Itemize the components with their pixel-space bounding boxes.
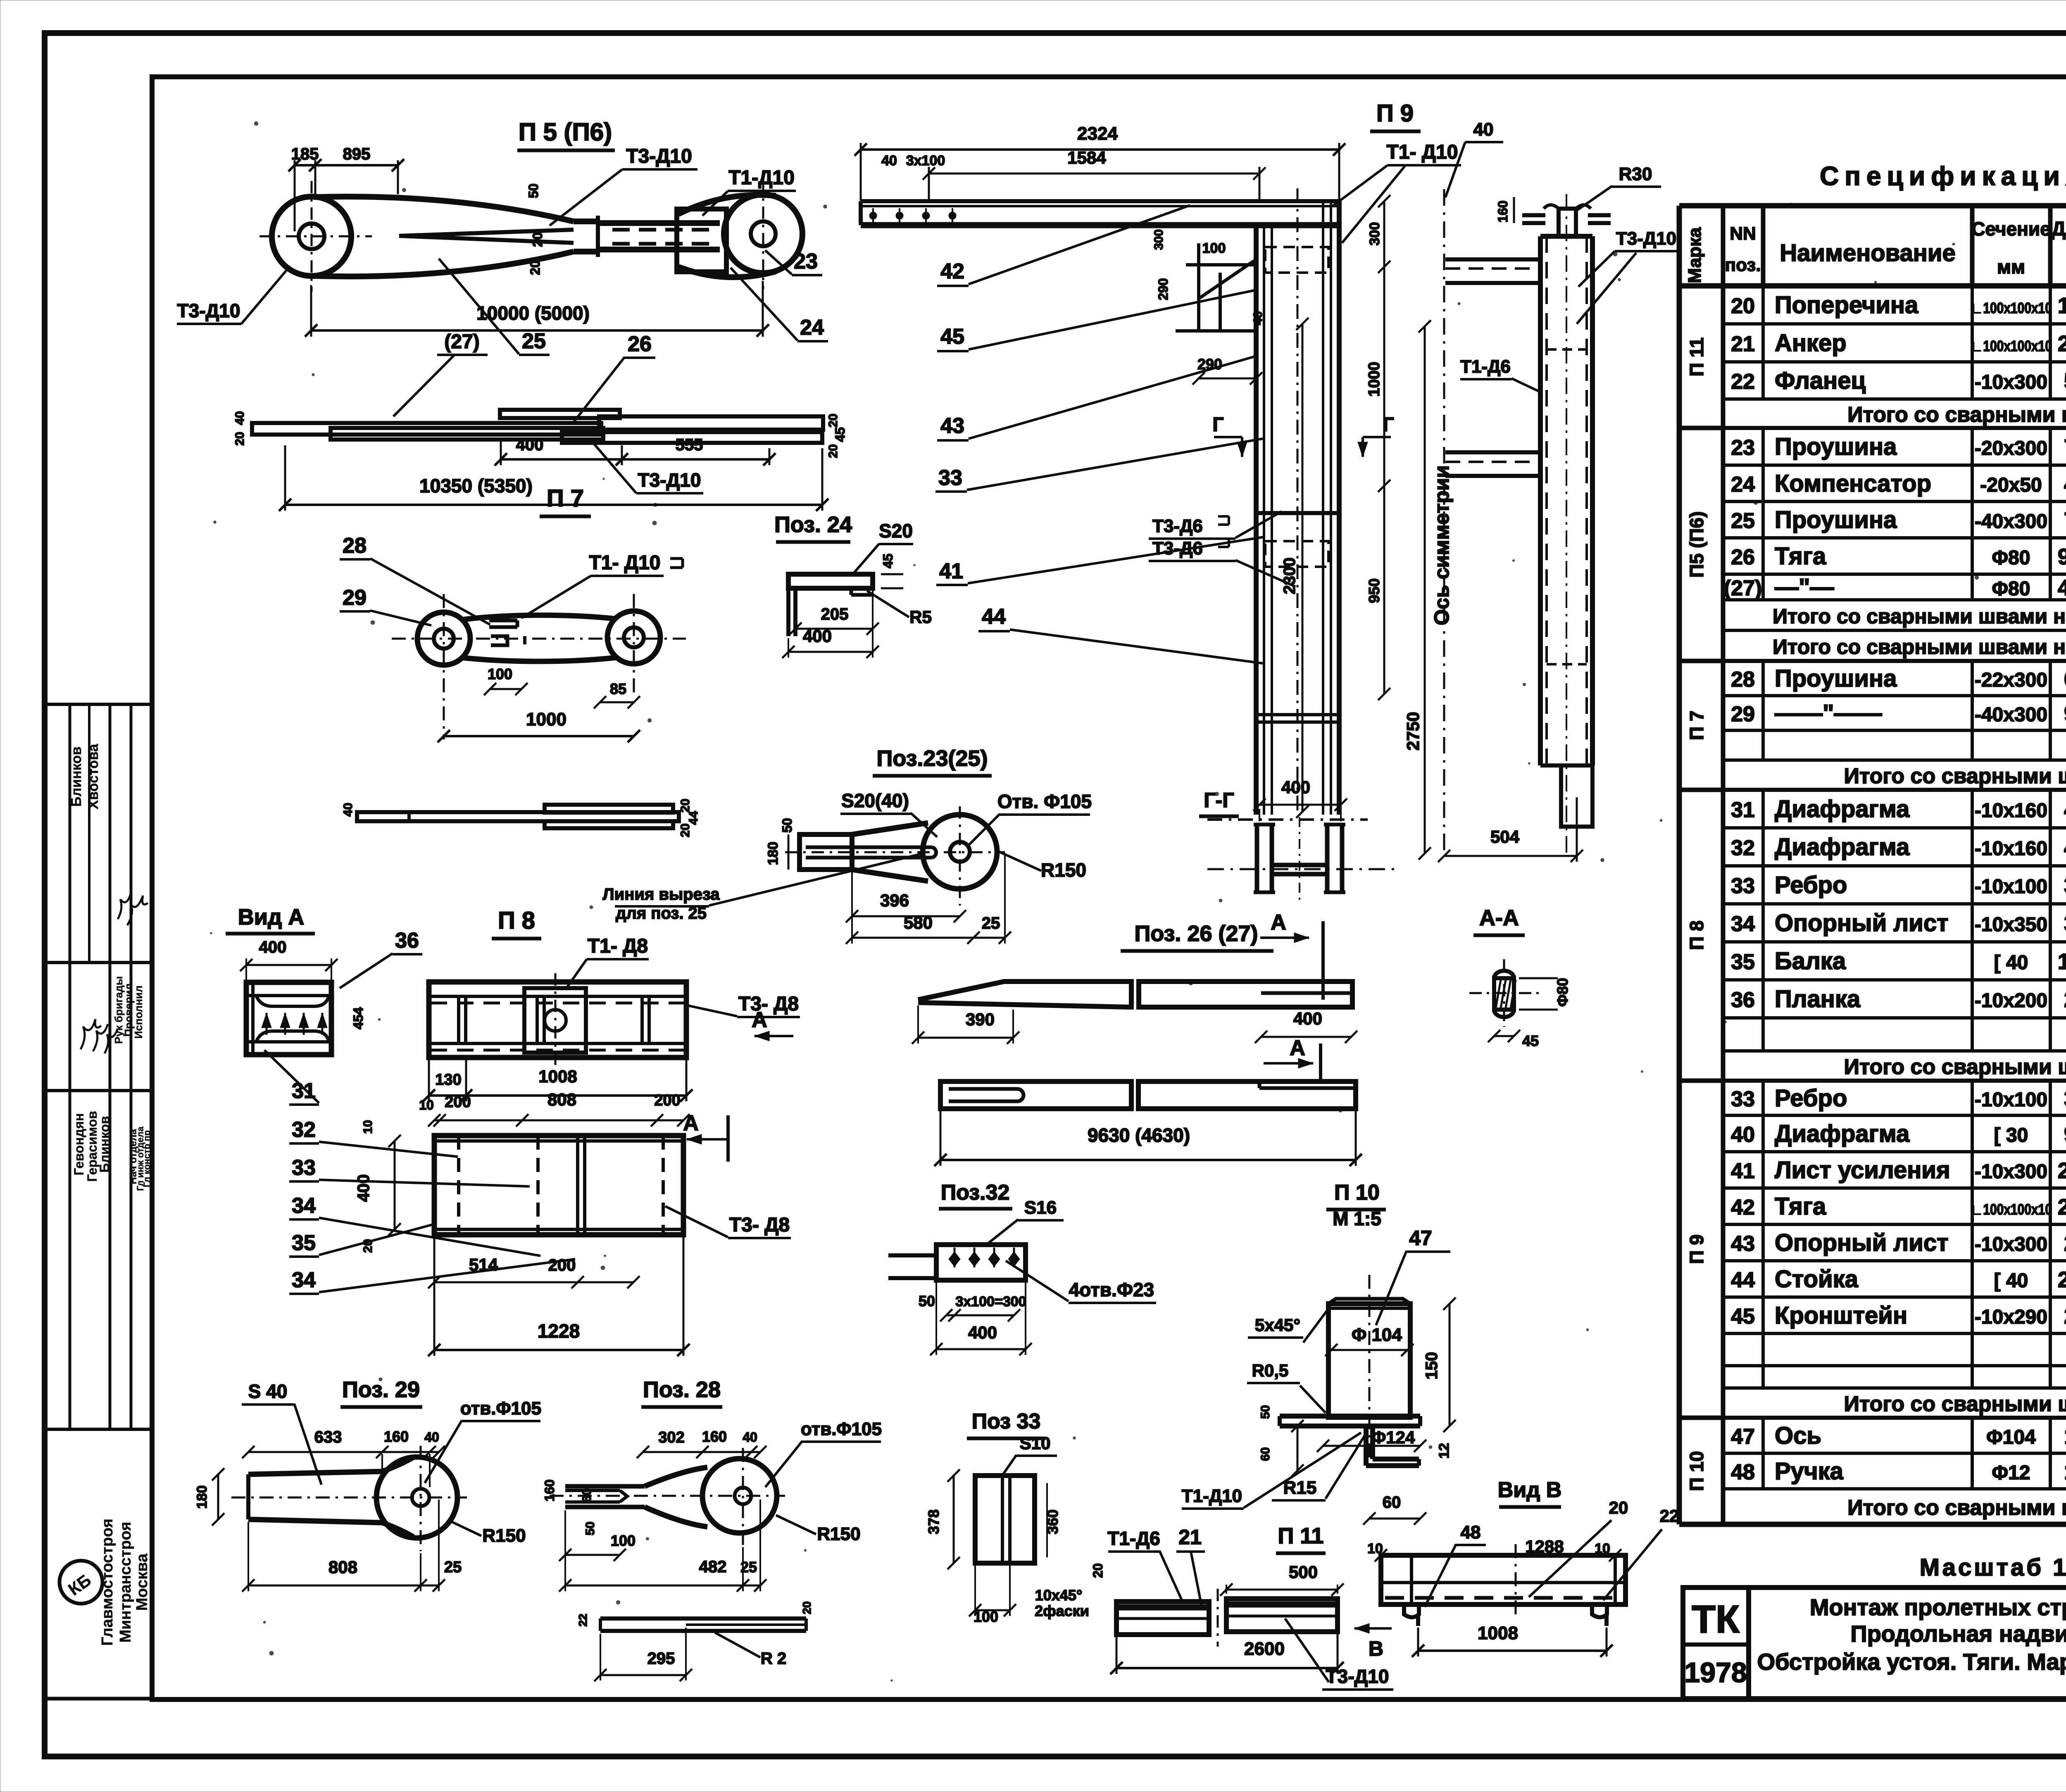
svg-text:400: 400: [1293, 1009, 1322, 1028]
svg-text:396: 396: [880, 891, 909, 910]
svg-text:60: 60: [1383, 1493, 1401, 1512]
svg-text:Обстройка устоя. Тяги. Марки: Обстройка устоя. Тяги. Марки П5÷П11: [1757, 1649, 2066, 1675]
svg-text:950: 950: [1366, 578, 1383, 603]
svg-text:-40х300: -40х300: [1975, 511, 2047, 532]
svg-text:Итого со сварными швами:: Итого со сварными швами:: [1844, 1055, 2066, 1079]
svg-text:45: 45: [1731, 1305, 1755, 1329]
svg-text:44: 44: [982, 605, 1006, 629]
svg-text:22: 22: [576, 1614, 589, 1626]
svg-text:44: 44: [687, 811, 700, 825]
svg-text:Т3- Д8: Т3- Д8: [729, 1214, 790, 1236]
svg-text:Г-Г: Г-Г: [1204, 789, 1234, 812]
svg-text:-22х300: -22х300: [1975, 669, 2047, 691]
svg-text:45: 45: [833, 427, 847, 442]
svg-text:S20(40): S20(40): [841, 790, 909, 811]
svg-text:50: 50: [780, 818, 795, 833]
svg-text:60: 60: [580, 1488, 594, 1502]
svg-text:Ось: Ось: [1775, 1422, 1821, 1449]
svg-text:Опорный лист: Опорный лист: [1775, 910, 1949, 936]
svg-text:185: 185: [291, 145, 319, 163]
svg-text:Продольная надвижка.: Продольная надвижка.: [1850, 1621, 2066, 1647]
svg-text:100: 100: [1202, 240, 1226, 256]
svg-text:20: 20: [233, 432, 247, 445]
svg-text:120: 120: [2064, 1459, 2066, 1484]
svg-text:34: 34: [292, 1194, 316, 1218]
svg-text:А: А: [752, 1008, 767, 1032]
svg-text:П 9: П 9: [1686, 1234, 1707, 1264]
svg-text:П5 (П6): П5 (П6): [1686, 511, 1707, 578]
svg-text:31: 31: [292, 1079, 316, 1103]
svg-text:755: 755: [2064, 508, 2066, 533]
svg-text:20: 20: [826, 444, 840, 458]
svg-text:-10х100: -10х100: [1975, 1089, 2047, 1111]
svg-text:Т3-Д10: Т3-Д10: [626, 145, 692, 167]
svg-text:Т3-Д10: Т3-Д10: [638, 469, 701, 491]
svg-text:992: 992: [2064, 1122, 2066, 1147]
svg-text:(27): (27): [1724, 576, 1762, 600]
svg-text:26: 26: [628, 332, 652, 356]
svg-text:мм: мм: [1997, 256, 2025, 278]
svg-text:29: 29: [343, 586, 367, 610]
svg-text:А: А: [1290, 1036, 1305, 1060]
svg-text:Вид В: Вид В: [1498, 1478, 1562, 1502]
svg-text:20: 20: [678, 799, 692, 812]
svg-text:Ребро: Ребро: [1775, 1085, 1847, 1112]
svg-text:-10х350: -10х350: [1975, 914, 2047, 936]
svg-text:R5: R5: [909, 607, 932, 627]
svg-text:40: 40: [424, 1430, 439, 1445]
svg-text:32: 32: [292, 1118, 316, 1142]
svg-text:Лист усиления: Лист усиления: [1775, 1157, 1950, 1184]
svg-text:555: 555: [676, 436, 703, 454]
svg-text:808: 808: [328, 1557, 357, 1577]
svg-text:Φ124: Φ124: [1372, 1428, 1415, 1447]
svg-text:Итого со сварными швами:: Итого со сварными швами:: [1844, 1392, 2066, 1416]
svg-text:R150: R150: [817, 1524, 860, 1544]
svg-text:Т1-Д6: Т1-Д6: [1107, 1528, 1160, 1549]
svg-text:3х100=300: 3х100=300: [955, 1294, 1026, 1310]
svg-text:9630 (4630): 9630 (4630): [1088, 1124, 1190, 1146]
svg-text:10: 10: [1595, 1541, 1610, 1557]
svg-text:1008: 1008: [538, 1067, 577, 1086]
svg-text:20: 20: [826, 414, 840, 427]
svg-text:поз.: поз.: [1725, 255, 1761, 275]
svg-text:Т1-Д6: Т1-Д6: [1460, 356, 1511, 377]
svg-text:23: 23: [1731, 436, 1755, 460]
svg-text:2750: 2750: [2058, 1267, 2066, 1292]
svg-text:Φ12: Φ12: [1992, 1462, 2030, 1484]
svg-text:48: 48: [1461, 1522, 1481, 1542]
svg-text:-10х300: -10х300: [1975, 1233, 2047, 1255]
svg-text:33: 33: [292, 1156, 316, 1180]
svg-text:Москва: Москва: [133, 1553, 151, 1611]
svg-text:-10х200: -10х200: [1975, 990, 2047, 1012]
svg-text:-10х300: -10х300: [1975, 1161, 2047, 1183]
svg-text:П 7: П 7: [547, 485, 584, 512]
svg-text:Линия выреза: Линия выреза: [603, 885, 720, 903]
svg-text:2324: 2324: [2058, 1195, 2066, 1219]
svg-text:20: 20: [528, 260, 543, 275]
svg-text:Тяга: Тяга: [1775, 543, 1826, 570]
svg-text:Минтрансстроя: Минтрансстроя: [117, 1522, 134, 1643]
svg-text:21: 21: [1731, 332, 1755, 356]
svg-text:Поз.23(25): Поз.23(25): [876, 746, 988, 771]
svg-text:22: 22: [1731, 370, 1755, 394]
svg-text:∟100х100х10: ∟100х100х10: [1971, 299, 2052, 316]
svg-text:808: 808: [547, 1090, 576, 1109]
svg-text:47: 47: [1409, 1226, 1432, 1250]
svg-text:Диафрагма: Диафрагма: [1775, 796, 1910, 822]
svg-text:400: 400: [2064, 472, 2066, 497]
svg-text:1584: 1584: [1067, 148, 1106, 167]
svg-text:28: 28: [343, 534, 367, 558]
svg-text:S 40: S 40: [248, 1381, 288, 1402]
svg-text:130: 130: [435, 1071, 461, 1089]
svg-text:Хвостова: Хвостова: [86, 744, 101, 810]
svg-text:33: 33: [938, 466, 962, 490]
svg-text:160: 160: [1495, 200, 1510, 222]
svg-text:Стойка: Стойка: [1775, 1266, 1859, 1293]
svg-text:9630: 9630: [2058, 544, 2066, 569]
svg-text:для поз. 25: для поз. 25: [616, 904, 707, 922]
svg-text:――ʺ――: ――ʺ――: [1775, 700, 1882, 727]
svg-text:П 10: П 10: [1334, 1181, 1380, 1205]
svg-text:390: 390: [966, 1010, 995, 1029]
svg-text:20: 20: [1090, 1563, 1105, 1578]
svg-text:-10х160: -10х160: [1975, 800, 2047, 822]
svg-text:NN: NN: [1730, 223, 1756, 244]
svg-text:1000: 1000: [1366, 362, 1383, 397]
svg-text:R 2: R 2: [761, 1649, 786, 1668]
svg-text:500: 500: [2064, 369, 2066, 394]
svg-text:Φ104: Φ104: [1986, 1426, 2036, 1448]
svg-text:Проушина: Проушина: [1775, 665, 1897, 692]
svg-text:400: 400: [1281, 777, 1310, 797]
svg-text:20: 20: [800, 1601, 813, 1614]
svg-text:Т1-Д10: Т1-Д10: [1182, 1486, 1242, 1506]
svg-text:1978: 1978: [1684, 1657, 1747, 1688]
svg-text:3х100: 3х100: [906, 153, 945, 169]
svg-text:10: 10: [419, 1098, 434, 1112]
svg-text:895: 895: [343, 145, 371, 163]
svg-text:-10х290: -10х290: [1975, 1306, 2047, 1328]
svg-text:180: 180: [194, 1485, 210, 1509]
svg-text:Анкер: Анкер: [1775, 330, 1847, 356]
svg-text:П 8: П 8: [498, 907, 535, 934]
svg-text:4680: 4680: [2058, 575, 2066, 600]
svg-text:П 7: П 7: [1686, 711, 1707, 740]
svg-text:Φ80: Φ80: [1992, 547, 2030, 569]
svg-text:33: 33: [1731, 1087, 1755, 1111]
svg-text:-10х160: -10х160: [1975, 838, 2047, 860]
svg-text:Монтаж пролетных строений 45,0: Монтаж пролетных строений 45,0; 55,0м: [1810, 1594, 2066, 1620]
svg-text:250: 250: [2064, 987, 2066, 1012]
svg-text:400: 400: [259, 938, 287, 956]
svg-text:П 8: П 8: [1686, 920, 1707, 950]
svg-text:10000 (5000): 10000 (5000): [476, 302, 590, 324]
svg-text:504: 504: [1490, 827, 1520, 846]
svg-text:10: 10: [361, 1120, 375, 1134]
svg-text:Поз. 26 (27): Поз. 26 (27): [1134, 921, 1258, 946]
svg-text:Φ80: Φ80: [1992, 578, 2030, 600]
svg-text:П 9: П 9: [1376, 100, 1414, 127]
svg-text:-10х100: -10х100: [1975, 876, 2047, 898]
svg-text:[ 40: [ 40: [1994, 952, 2028, 974]
svg-text:Итого со сварными швами на ма: Итого со сварными швами на марку П5: [1773, 605, 2066, 628]
svg-text:43: 43: [940, 414, 964, 438]
svg-text:А-А: А-А: [1479, 906, 1519, 930]
svg-text:Гевондян: Гевондян: [71, 1113, 86, 1176]
svg-text:2300: 2300: [1281, 558, 1299, 594]
svg-text:Исполнил: Исполнил: [132, 986, 145, 1039]
svg-text:Итого со сварными швами: Итого со сварными швами: [1847, 1496, 2066, 1520]
svg-text:150: 150: [2064, 1424, 2066, 1449]
svg-text:160: 160: [702, 1428, 727, 1445]
svg-text:-20х300: -20х300: [1975, 437, 2047, 459]
svg-text:-10х300: -10х300: [1975, 371, 2047, 393]
svg-text:25: 25: [522, 329, 546, 353]
svg-text:Т3-Д10: Т3-Д10: [1326, 1666, 1389, 1687]
svg-text:2фаски: 2фаски: [1035, 1602, 1089, 1619]
svg-text:Г: Г: [1212, 414, 1223, 436]
svg-text:Т1- Д8: Т1- Д8: [588, 935, 648, 957]
svg-text:∟100х100х10: ∟100х100х10: [1971, 1201, 2052, 1218]
svg-text:43: 43: [1731, 1232, 1755, 1256]
svg-text:2300: 2300: [2058, 1158, 2066, 1183]
svg-text:180: 180: [765, 842, 781, 865]
svg-text:350: 350: [2064, 911, 2066, 936]
svg-text:657: 657: [2064, 667, 2066, 692]
svg-text:Ось симметрии: Ось симметрии: [1430, 465, 1453, 625]
svg-text:Блинков: Блинков: [69, 746, 84, 807]
svg-text:755: 755: [2064, 435, 2066, 460]
svg-text:Т1- Д10: Т1- Д10: [1387, 141, 1458, 163]
svg-text:1308: 1308: [2058, 293, 2066, 318]
svg-text:200: 200: [445, 1093, 471, 1111]
svg-text:Φ 104: Φ 104: [1352, 1325, 1402, 1345]
svg-text:Итого со сварными швами на ма: Итого со сварными швами на марку П6: [1773, 635, 2066, 658]
svg-text:4отв.Ф23: 4отв.Ф23: [1069, 1279, 1154, 1300]
svg-text:(27): (27): [444, 331, 479, 353]
svg-text:45: 45: [1522, 1032, 1539, 1049]
svg-text:100: 100: [611, 1532, 636, 1549]
svg-text:295: 295: [647, 1649, 675, 1668]
svg-text:∟100х100х10: ∟100х100х10: [1971, 337, 2052, 354]
svg-text:21: 21: [1178, 1526, 1202, 1549]
svg-text:10350 (5350): 10350 (5350): [419, 475, 533, 497]
svg-text:26: 26: [1731, 545, 1755, 569]
svg-text:400: 400: [2064, 797, 2066, 822]
svg-text:32: 32: [1731, 836, 1755, 860]
svg-text:Фланец: Фланец: [1775, 367, 1866, 394]
svg-text:П 11: П 11: [1686, 337, 1707, 376]
svg-text:Опорный лист: Опорный лист: [1775, 1229, 1949, 1256]
svg-text:Диафрагма: Диафрагма: [1775, 834, 1910, 860]
svg-text:20: 20: [678, 823, 692, 837]
svg-text:23: 23: [794, 250, 818, 273]
svg-text:20: 20: [1731, 294, 1755, 318]
svg-text:2600: 2600: [2058, 331, 2066, 356]
svg-text:Поз. 28: Поз. 28: [643, 1377, 721, 1402]
svg-text:378: 378: [2064, 1086, 2066, 1111]
svg-text:45: 45: [940, 325, 964, 349]
svg-text:Поз. 24: Поз. 24: [774, 512, 852, 537]
svg-text:А: А: [1271, 910, 1286, 934]
svg-text:34: 34: [292, 1268, 316, 1292]
svg-text:400: 400: [803, 626, 832, 646]
svg-text:П 11: П 11: [1278, 1523, 1324, 1548]
svg-text:40: 40: [1473, 119, 1494, 140]
svg-text:Сечение: Сечение: [1971, 218, 2051, 240]
svg-text:Итого со сварными швами: Итого со сварными швами: [1847, 403, 2066, 427]
svg-text:Поперечина: Поперечина: [1775, 292, 1918, 318]
svg-text:-40х300: -40х300: [1975, 704, 2047, 726]
svg-text:34: 34: [1731, 912, 1755, 936]
svg-text:Проушина: Проушина: [1775, 433, 1897, 460]
svg-text:50: 50: [1259, 1405, 1272, 1419]
svg-text:П 5 (П6): П 5 (П6): [519, 118, 612, 146]
svg-text:Спецификация металла: Спецификация металла: [1820, 161, 2066, 191]
svg-text:—ʺ—: —ʺ—: [1775, 574, 1834, 601]
svg-text:42: 42: [940, 259, 964, 283]
svg-text:Диафрагма: Диафрагма: [1775, 1120, 1910, 1147]
svg-text:45: 45: [881, 554, 895, 568]
svg-text:2324: 2324: [1077, 124, 1118, 144]
svg-text:40: 40: [233, 411, 247, 425]
svg-text:378: 378: [2064, 873, 2066, 898]
svg-text:Ручка: Ручка: [1775, 1458, 1844, 1485]
svg-text:R30: R30: [1619, 164, 1652, 184]
svg-text:Т3- Д8: Т3- Д8: [738, 993, 799, 1015]
svg-text:31: 31: [1731, 798, 1755, 822]
svg-text:290: 290: [2064, 1304, 2066, 1329]
svg-text:1288: 1288: [1525, 1537, 1564, 1556]
svg-text:-20х50: -20х50: [1980, 474, 2042, 496]
svg-text:1008: 1008: [1478, 1623, 1518, 1643]
svg-text:35: 35: [1731, 950, 1755, 974]
svg-text:Г: Г: [1383, 414, 1394, 436]
svg-text:85: 85: [610, 680, 626, 697]
svg-text:Главмостостроя: Главмостостроя: [99, 1519, 116, 1646]
svg-text:Планка: Планка: [1775, 986, 1861, 1012]
svg-text:200: 200: [2064, 1231, 2066, 1256]
svg-text:2750: 2750: [1403, 712, 1423, 750]
svg-text:25: 25: [982, 914, 1000, 932]
svg-text:200: 200: [654, 1092, 680, 1109]
svg-text:25: 25: [1731, 509, 1755, 533]
svg-text:20: 20: [530, 232, 545, 247]
svg-text:24: 24: [1731, 473, 1755, 497]
svg-text:40: 40: [1731, 1123, 1755, 1147]
svg-text:отв.Φ105: отв.Φ105: [801, 1419, 882, 1439]
svg-text:41: 41: [1731, 1159, 1755, 1183]
svg-text:R150: R150: [482, 1526, 526, 1546]
svg-text:Т1- Д10: Т1- Д10: [589, 552, 661, 574]
svg-text:60: 60: [1259, 1447, 1272, 1461]
svg-text:36: 36: [1731, 988, 1755, 1012]
svg-text:302: 302: [658, 1429, 684, 1446]
svg-text:S20: S20: [879, 520, 913, 542]
svg-text:633: 633: [314, 1428, 342, 1446]
svg-text:Тяга: Тяга: [1775, 1193, 1826, 1220]
svg-text:400: 400: [355, 1174, 373, 1202]
svg-text:300: 300: [1152, 229, 1166, 250]
svg-text:48: 48: [1731, 1460, 1755, 1484]
svg-text:42: 42: [1731, 1195, 1755, 1219]
svg-text:Наименование: Наименование: [1780, 240, 1956, 266]
svg-text:Т3-Д6: Т3-Д6: [1152, 516, 1203, 536]
svg-text:Поз.32: Поз.32: [941, 1181, 1010, 1205]
svg-text:Итого со сварными швами:: Итого со сварными швами:: [1844, 764, 2066, 788]
svg-text:205: 205: [821, 605, 849, 623]
svg-text:5х45°: 5х45°: [1255, 1315, 1300, 1335]
svg-text:40: 40: [881, 153, 897, 169]
svg-text:Кронштейн: Кронштейн: [1775, 1302, 1907, 1329]
svg-text:290: 290: [1156, 278, 1171, 300]
svg-text:24: 24: [800, 316, 824, 340]
svg-text:R0,5: R0,5: [1252, 1361, 1289, 1380]
svg-text:100: 100: [488, 665, 512, 682]
svg-text:1228: 1228: [538, 1320, 580, 1342]
svg-text:50: 50: [526, 183, 541, 198]
svg-text:Длина: Длина: [2052, 218, 2066, 240]
svg-text:10х45°: 10х45°: [1035, 1587, 1083, 1604]
svg-text:Поз 33: Поз 33: [972, 1409, 1041, 1433]
svg-text:400: 400: [968, 1323, 997, 1342]
svg-text:[ 40: [ 40: [1994, 1270, 2028, 1292]
svg-text:Проушина: Проушина: [1775, 506, 1897, 533]
svg-text:В: В: [1369, 1637, 1383, 1660]
svg-text:М 1:5: М 1:5: [1333, 1208, 1381, 1229]
svg-text:Т3-Д10: Т3-Д10: [1616, 228, 1676, 249]
svg-text:28: 28: [1731, 668, 1755, 692]
svg-text:R150: R150: [1041, 859, 1086, 881]
svg-text:41: 41: [939, 559, 963, 583]
svg-text:Т1-Д10: Т1-Д10: [728, 167, 795, 189]
svg-text:Балка: Балка: [1775, 948, 1846, 974]
svg-text:Т3-Д10: Т3-Д10: [177, 300, 240, 321]
svg-text:40: 40: [1251, 311, 1265, 325]
svg-text:36: 36: [395, 929, 419, 953]
svg-text:160: 160: [542, 1479, 557, 1501]
svg-text:12: 12: [1436, 1443, 1452, 1459]
svg-text:Масштаб 1:20: Масштаб 1:20: [1920, 1554, 2066, 1581]
svg-text:40: 40: [743, 1430, 757, 1445]
svg-text:500: 500: [1289, 1562, 1318, 1582]
svg-text:150: 150: [1423, 1352, 1441, 1380]
svg-text:50: 50: [583, 1521, 597, 1535]
svg-text:160: 160: [384, 1428, 409, 1445]
svg-text:А: А: [683, 1111, 699, 1135]
svg-text:Компенсатор: Компенсатор: [1775, 470, 1931, 497]
svg-text:1228: 1228: [2058, 949, 2066, 974]
svg-text:983: 983: [2064, 701, 2066, 726]
svg-text:S16: S16: [1024, 1198, 1057, 1218]
svg-text:Ребро: Ребро: [1775, 872, 1847, 898]
svg-text:[ 30: [ 30: [1994, 1124, 2028, 1146]
svg-text:25: 25: [444, 1559, 462, 1576]
svg-text:22: 22: [1660, 1506, 1679, 1526]
svg-text:П 10: П 10: [1686, 1451, 1707, 1491]
svg-text:454: 454: [351, 1007, 366, 1029]
svg-text:отв.Φ105: отв.Φ105: [460, 1398, 541, 1419]
svg-text:2600: 2600: [1244, 1639, 1285, 1659]
svg-text:1000: 1000: [526, 709, 566, 730]
svg-text:580: 580: [904, 913, 933, 932]
svg-text:33: 33: [1731, 874, 1755, 898]
svg-text:400: 400: [516, 436, 544, 454]
svg-text:Блинков: Блинков: [97, 1116, 112, 1172]
